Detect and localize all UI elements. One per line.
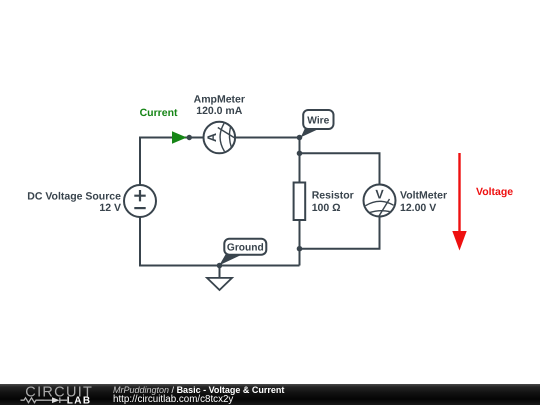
ammeter gauge internals (218, 124, 235, 152)
ground symbol (207, 278, 232, 290)
svg-text:A: A (205, 133, 219, 142)
DC voltage source V1 circle (124, 185, 156, 217)
node dot ground junction (217, 263, 223, 269)
DC voltage source minus sign (134, 207, 145, 209)
svg-text:100 Ω: 100 Ω (312, 202, 341, 214)
wire voltmeter bottom branch (300, 216, 380, 248)
footer text line 2 (113, 394, 233, 405)
Wire callout tail (301, 127, 318, 137)
node dot voltmeter bottom junction (297, 246, 303, 252)
ground stub wire (219, 266, 221, 278)
Ground callout box (224, 239, 266, 255)
resistor R1 box (294, 183, 306, 221)
wire right vertical top (299, 138, 301, 183)
svg-text:Wire: Wire (307, 116, 329, 127)
Ground callout tail (219, 255, 240, 266)
svg-text:Ground: Ground (227, 243, 264, 254)
svg-text:Voltage: Voltage (476, 186, 513, 198)
svg-text:12.00 V: 12.00 V (400, 202, 436, 214)
logo resistor zigzag + diode (21, 398, 68, 404)
svg-text:120.0 mA: 120.0 mA (196, 105, 243, 117)
svg-text:12 V: 12 V (99, 202, 121, 214)
wire top right segment (235, 137, 299, 139)
current direction arrow (green) (172, 131, 187, 144)
Wire callout box (303, 110, 333, 129)
DC voltage source plus sign (134, 190, 145, 201)
footer text line 1 (113, 385, 284, 395)
wire left bottom segment (140, 217, 300, 266)
wire voltmeter top branch (300, 153, 380, 184)
wire left branch (140, 138, 204, 186)
svg-text:DC Voltage Source: DC Voltage Source (27, 190, 121, 202)
node dot after current arrow (187, 135, 192, 140)
voltage annotation arrow (red) (458, 153, 460, 233)
svg-text:LAB: LAB (67, 396, 92, 405)
node dot voltmeter top junction (297, 151, 303, 157)
svg-text:V: V (375, 187, 384, 201)
ammeter AM1 circle (204, 122, 236, 154)
voltmeter gauge internals (366, 199, 394, 216)
voltmeter VM1 circle (364, 185, 396, 217)
svg-text:AmpMeter: AmpMeter (194, 93, 245, 105)
CircuitLab logo (0, 384, 100, 405)
footer bar (0, 384, 540, 405)
svg-text:Current: Current (140, 107, 178, 119)
svg-text:Resistor: Resistor (312, 189, 354, 201)
node dot Wire junction (297, 135, 303, 141)
svg-text:VoltMeter: VoltMeter (400, 189, 447, 201)
wire right vertical bottom (299, 220, 301, 266)
